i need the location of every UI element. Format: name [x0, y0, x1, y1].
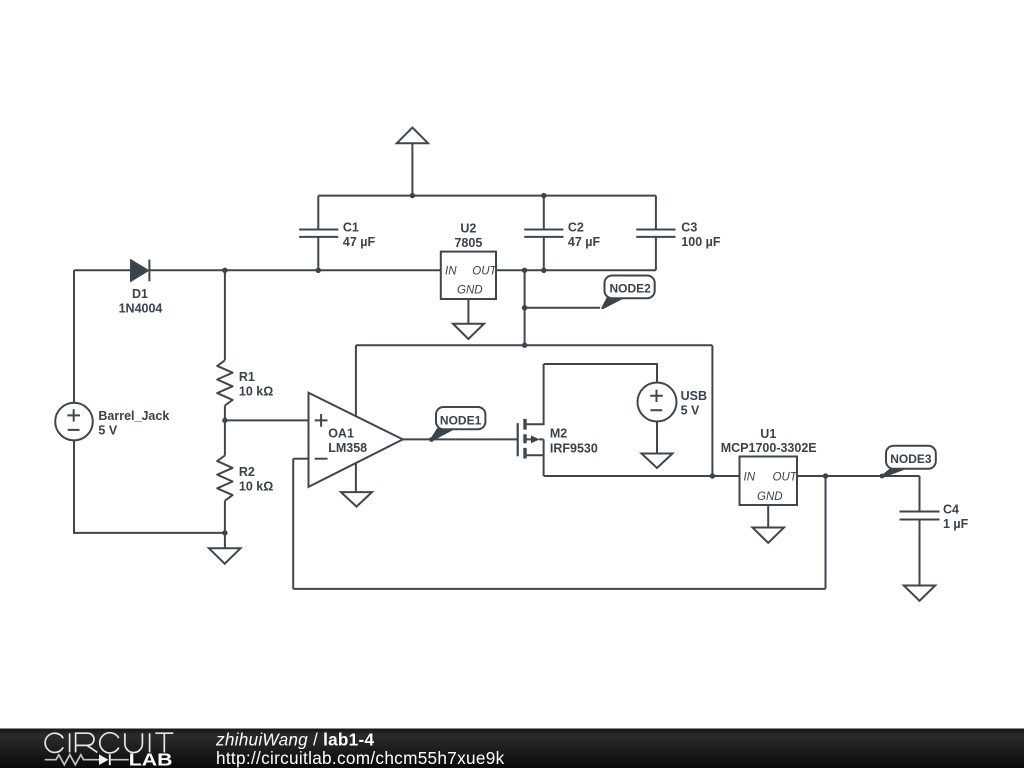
diode D1	[131, 260, 149, 282]
wire input rail left	[74, 269, 131, 271]
op-amp minus input mark	[315, 458, 328, 460]
regulator U1 MCP1700	[740, 457, 798, 506]
junction C2 top	[541, 193, 546, 198]
pin labels U1 IN OUT GND	[744, 471, 798, 503]
label R1 value	[239, 370, 273, 399]
wire op-amp minus stub	[293, 458, 308, 460]
transistor M2 contacts	[527, 364, 544, 476]
junction feedback tap	[823, 473, 828, 478]
svg-text:U1: U1	[760, 427, 776, 441]
junction drain rail	[710, 473, 715, 478]
capacitor C3	[636, 196, 675, 271]
ground under C4	[904, 586, 935, 601]
svg-text:OUT: OUT	[773, 471, 798, 483]
label C2 value	[568, 221, 601, 250]
svg-text:10 kΩ: 10 kΩ	[239, 480, 273, 494]
svg-text:1 µF: 1 µF	[943, 517, 969, 531]
ground under U2	[453, 299, 484, 339]
svg-text:NODE2: NODE2	[610, 282, 652, 296]
wire R1 top lead	[224, 270, 226, 360]
capacitor C2	[524, 196, 563, 271]
wire R2 bottom lead	[224, 501, 226, 533]
svg-text:zhihuiWang / lab1-4: zhihuiWang / lab1-4	[215, 730, 374, 750]
svg-text:7805: 7805	[454, 236, 482, 250]
wire USB top rail	[544, 364, 657, 383]
capacitor C1	[299, 196, 338, 271]
wire barrel jack top	[73, 270, 75, 403]
svg-text:R1: R1	[239, 370, 255, 384]
junction bottom node	[222, 530, 227, 535]
svg-text:5 V: 5 V	[681, 404, 700, 418]
wire feedback bottom	[293, 588, 825, 590]
label C1 value	[343, 221, 376, 250]
wire 5V rail right vertical	[711, 345, 713, 476]
node NODE3 anchor	[880, 474, 885, 479]
wire U1 OUT	[797, 475, 920, 477]
wire R2 top lead	[224, 420, 226, 455]
svg-text:5 V: 5 V	[98, 423, 117, 437]
svg-text:10 kΩ: 10 kΩ	[239, 384, 273, 398]
svg-text:C2: C2	[568, 221, 584, 235]
op-amp plus input mark	[315, 414, 328, 427]
svg-text:U2: U2	[460, 222, 476, 236]
svg-text:NODE3: NODE3	[890, 452, 932, 466]
wire op-amp V+ stem	[355, 345, 357, 416]
svg-text:NODE1: NODE1	[440, 413, 482, 427]
CircuitLab logo schematic squiggle	[45, 754, 129, 765]
transistor M2 body arrow	[527, 436, 544, 444]
wire U2 OUT to C3 bottom	[496, 269, 656, 271]
power symbol VCC	[397, 128, 428, 196]
svg-text:C1: C1	[343, 221, 359, 235]
pin labels U2 IN OUT GND	[445, 265, 498, 296]
wire feedback right vertical	[825, 476, 827, 589]
svg-text:1N4004: 1N4004	[119, 302, 163, 316]
svg-text:M2: M2	[550, 426, 567, 440]
label USB value	[681, 389, 707, 418]
label Barrel_Jack value	[98, 409, 169, 438]
node NODE2 flag	[601, 276, 655, 310]
junction C2 bottom	[541, 268, 546, 273]
svg-text:IN: IN	[445, 265, 457, 277]
capacitor C4	[900, 476, 940, 586]
svg-text:LAB: LAB	[129, 751, 173, 768]
wire op-amp output	[403, 438, 518, 440]
CircuitLab logo CIRCUIT	[45, 733, 173, 753]
label C3 value	[681, 221, 721, 250]
label OA1 value	[328, 427, 367, 455]
label D1 value	[119, 287, 163, 316]
svg-text:GND: GND	[757, 491, 783, 503]
footer title text	[215, 730, 374, 750]
label U1 value	[721, 427, 817, 455]
svg-text:100 µF: 100 µF	[681, 235, 721, 249]
svg-text:C4: C4	[943, 503, 959, 517]
resistor R2	[217, 456, 232, 501]
svg-text:47 µF: 47 µF	[568, 235, 601, 249]
label R2 value	[239, 465, 273, 494]
ground under bottom node	[209, 533, 241, 564]
label U2 value	[454, 222, 482, 250]
wire divider to op-amp	[225, 419, 309, 421]
junction R1 top	[222, 268, 227, 273]
svg-text:47 µF: 47 µF	[343, 235, 376, 249]
source USB 5V	[638, 383, 677, 422]
svg-text:IN: IN	[744, 471, 756, 483]
wire R1 bottom lead	[224, 406, 226, 421]
wire 5V rail mid	[356, 344, 713, 346]
transistor M2 gate bar	[517, 423, 519, 456]
ground under U1	[753, 505, 785, 543]
transistor M2 channel bars	[523, 419, 526, 459]
node NODE3 flag	[882, 446, 936, 478]
CircuitLab logo LAB	[129, 751, 173, 768]
label NODE1	[440, 413, 482, 427]
junction divider mid	[222, 418, 227, 423]
junction VCC/top rail	[410, 193, 415, 198]
junction U2 out node	[522, 268, 527, 273]
svg-text:D1: D1	[132, 287, 148, 301]
junction C1 bottom	[316, 268, 321, 273]
regulator U2 7805	[441, 252, 496, 299]
ground under op-amp	[341, 492, 372, 507]
node NODE1 anchor	[429, 437, 434, 442]
wire M2 drain rail	[544, 475, 740, 477]
wire input rail to U2	[149, 269, 440, 271]
footer url text	[216, 748, 505, 768]
label NODE2	[610, 282, 652, 296]
wire 5V node vertical	[524, 270, 526, 345]
svg-text:GND: GND	[457, 285, 483, 297]
ground under USB	[642, 454, 673, 469]
svg-text:MCP1700-3302E: MCP1700-3302E	[721, 441, 817, 455]
wire barrel jack bottom	[74, 440, 225, 533]
svg-text:http://circuitlab.com/chcm55h7: http://circuitlab.com/chcm55h7xue9k	[216, 748, 505, 768]
svg-text:C3: C3	[681, 221, 697, 235]
resistor R1	[217, 360, 232, 405]
node NODE1 flag	[431, 407, 486, 441]
svg-text:IRF9530: IRF9530	[550, 441, 598, 455]
wire op-amp V- stem	[355, 463, 357, 492]
wire feedback left vertical	[292, 459, 294, 589]
op-amp OA1	[309, 393, 403, 487]
wire top rail	[318, 195, 656, 197]
label C4 value	[943, 503, 969, 532]
source V1 Barrel_Jack	[55, 403, 93, 441]
svg-text:OUT: OUT	[472, 265, 497, 277]
label NODE3	[890, 452, 932, 466]
svg-text:OA1: OA1	[328, 427, 354, 441]
svg-text:R2: R2	[239, 465, 255, 479]
label M2 value	[550, 426, 598, 455]
svg-text:Barrel_Jack: Barrel_Jack	[98, 409, 169, 423]
wire NODE2 stub	[525, 307, 600, 309]
svg-text:USB: USB	[681, 389, 707, 403]
wire USB bottom stem	[656, 422, 658, 454]
junction rail tap	[522, 343, 527, 348]
svg-text:LM358: LM358	[328, 441, 367, 455]
junction NODE2 tap	[522, 305, 527, 310]
